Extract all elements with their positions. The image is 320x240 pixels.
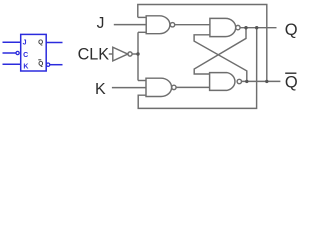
NAND U3 bubble: [172, 85, 176, 89]
wire J input of symbol: [3, 41, 21, 43]
flip-flop symbol U5 box: [21, 34, 47, 71]
inverter U2 triangle: [113, 47, 128, 61]
wire CLK to inverter: [109, 53, 113, 55]
svg-text:C: C: [23, 52, 28, 59]
wire U1 output to U2: [175, 24, 210, 26]
wire U1 top input stub: [138, 16, 146, 18]
wire Q output: [240, 27, 276, 29]
svg-text:Q: Q: [38, 60, 43, 67]
wire CLKB to U3 top input: [138, 80, 146, 82]
wire CLKB vertical bus: [137, 32, 139, 80]
svg-text:Q: Q: [285, 21, 298, 39]
wire Q feedback down and bottom loop to U3: [138, 28, 257, 109]
wire CLKB to U1 bottom input: [138, 31, 146, 33]
NAND U1 bubble: [170, 23, 174, 27]
svg-text:K: K: [23, 64, 28, 71]
svg-text:Q: Q: [285, 73, 298, 91]
wire K input of symbol: [3, 63, 21, 65]
wire U3 output to U4 bottom input: [176, 86, 210, 88]
wire J to U1: [114, 24, 146, 26]
wire Qbar cross-couple to U2 bottom input: [194, 35, 247, 82]
inverter U2 bubble: [128, 52, 132, 56]
wire K to U3: [112, 87, 146, 89]
node dot Qbar-feedback: [265, 80, 268, 83]
svg-text:J: J: [23, 40, 27, 47]
svg-text:Q: Q: [38, 39, 43, 46]
node dot Qbar-cross: [245, 80, 248, 83]
wire C input of symbol: [3, 52, 16, 54]
wire Qbar feedback top loop: [138, 5, 267, 82]
bubble on C input: [16, 51, 19, 54]
svg-text:J: J: [97, 15, 105, 32]
svg-text:K: K: [95, 81, 106, 98]
wire inverter output to node CLKB: [132, 53, 138, 55]
wire Qbar output of symbol: [50, 64, 63, 66]
NAND U4 body: [210, 73, 235, 91]
NAND U1 body: [146, 16, 170, 34]
bubble on Qbar output of symbol: [46, 63, 49, 66]
wire Qbar output: [242, 80, 281, 82]
NAND U4 bubble: [237, 79, 241, 83]
node dot Q-cross: [244, 26, 247, 29]
NAND U2 bubble: [236, 25, 240, 29]
wire Q output of symbol: [46, 42, 62, 44]
svg-text:CLK: CLK: [78, 45, 110, 63]
node dot CLKB: [136, 52, 139, 55]
NAND U3 body: [146, 78, 172, 96]
node dot Q-feedback: [255, 26, 258, 29]
NAND U2 body: [210, 18, 236, 36]
wire Q cross-couple to U4 top input: [194, 28, 246, 74]
